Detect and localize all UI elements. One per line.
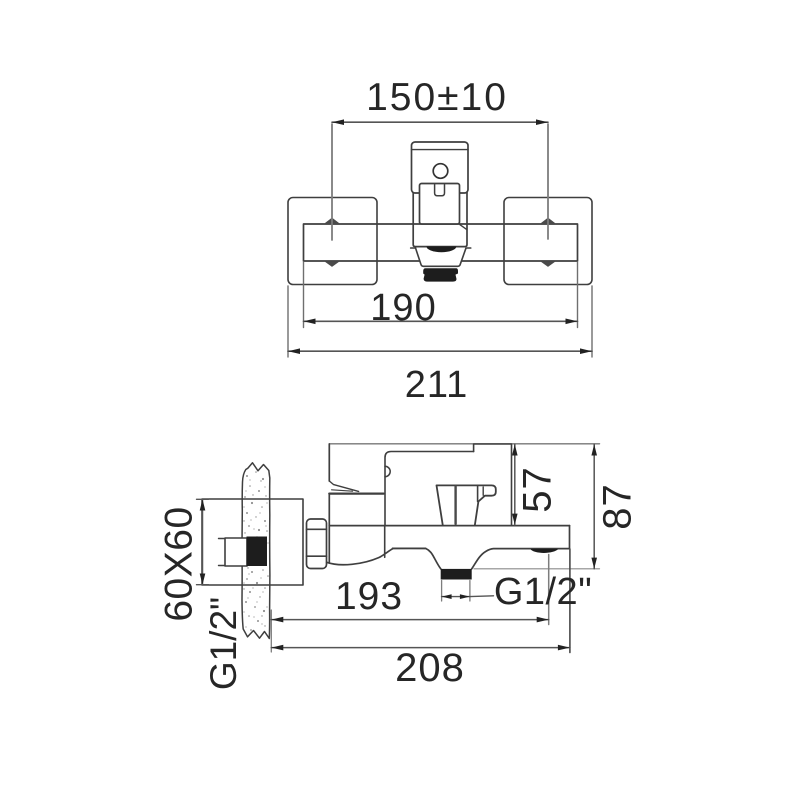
screw marker right bottom [540, 261, 556, 267]
wall speckle dots [243, 471, 269, 631]
svg-text:193: 193 [335, 575, 403, 618]
aerator dim arrows [442, 594, 452, 599]
dim 150 extension line left [331, 124, 333, 240]
dim 60X60 end ticks [197, 499, 209, 584]
dim 150 arrow right [536, 119, 548, 125]
dim 190 arrows [304, 319, 316, 325]
body underside profile [327, 548, 441, 569]
dim 208 spout-tip extension [569, 549, 571, 653]
dim 87 arrows [591, 444, 597, 455]
lever handle (front) [412, 142, 469, 193]
nut facet lines [307, 529, 327, 556]
spout trapezoid [416, 248, 466, 266]
outlet dark sliver [530, 549, 558, 553]
aerator dim extension lines [441, 581, 443, 602]
dim 211 line [288, 350, 592, 352]
lever stem line [454, 487, 456, 525]
87 top extension line [329, 443, 599, 445]
svg-text:60X60: 60X60 [158, 506, 201, 621]
dim 60X60 arrows [200, 499, 206, 510]
svg-text:190: 190 [370, 287, 436, 329]
screw marker left bottom [324, 261, 340, 267]
lever knob inner line [482, 487, 484, 495]
dim 57 arrows [512, 444, 518, 455]
supply pipe stub behind wall [225, 538, 247, 566]
dim 193 arrows [271, 617, 283, 623]
body top surface line [329, 525, 569, 527]
dim 150 arrow left [332, 119, 344, 125]
aerator (side, black) [441, 569, 472, 580]
lever handle (side) [437, 485, 496, 524]
cartridge notch [435, 185, 445, 196]
dim 190 line [304, 320, 578, 322]
screw marker left top [324, 218, 341, 224]
svg-text:208: 208 [395, 646, 465, 690]
dim 57 line [514, 444, 516, 525]
dim 193 wall extension [270, 610, 272, 652]
dim 150 line [332, 121, 548, 123]
svg-text:211: 211 [405, 364, 469, 406]
connection nut [307, 519, 327, 569]
dim 208 line [271, 647, 570, 649]
aerator dim line + leader to G1/2 [442, 596, 470, 598]
dim 193 spout extension [548, 555, 550, 625]
87 bottom extension line [474, 568, 600, 570]
mounting plate left [288, 198, 377, 285]
spout right edge [569, 526, 571, 549]
dim 211 arrows [288, 348, 300, 354]
svg-text:G1/2": G1/2" [494, 571, 592, 613]
wall section (speckled) [242, 463, 270, 639]
svg-text:57: 57 [516, 466, 560, 513]
mounting plate right [504, 198, 592, 285]
aerator nut (black) [423, 268, 458, 281]
dim 190 extension lines [303, 262, 305, 328]
cartridge cover plate [420, 184, 460, 225]
screw marker right top [540, 218, 557, 224]
svg-text:G1/2": G1/2" [203, 597, 244, 690]
dim 150 extension line right [547, 124, 549, 239]
underside plateau line [393, 547, 426, 549]
body diagonal detail [460, 225, 467, 230]
faucet upper block outline [328, 444, 330, 563]
underside after aerator rising to tip [472, 549, 570, 569]
dim 87 line [593, 444, 595, 569]
lever right edge [477, 485, 479, 501]
svg-text:150±10: 150±10 [366, 76, 508, 119]
faucet body (front) sides [413, 192, 467, 247]
notch wedge on wall-side edge [329, 481, 358, 491]
dim 60X60 line [202, 500, 204, 585]
thick parting line [329, 493, 383, 495]
dim 193 line [271, 619, 548, 621]
spout shoulder ticks [411, 247, 471, 249]
svg-text:87: 87 [596, 483, 640, 530]
stub thread ticks [219, 539, 226, 566]
dim 211 extension lines [287, 286, 289, 357]
handle top line [412, 149, 469, 151]
dim 208 arrows [271, 645, 283, 651]
crossbar body [304, 224, 578, 261]
wall flange 60x60 [202, 499, 303, 585]
groove line with rounded corner [385, 452, 474, 558]
screw boss arc [385, 466, 390, 476]
spout shadow arc [426, 246, 456, 252]
pipe thread (black) through wall [247, 537, 268, 567]
raised dome top edge [474, 444, 512, 526]
handle hole circle [433, 164, 448, 179]
